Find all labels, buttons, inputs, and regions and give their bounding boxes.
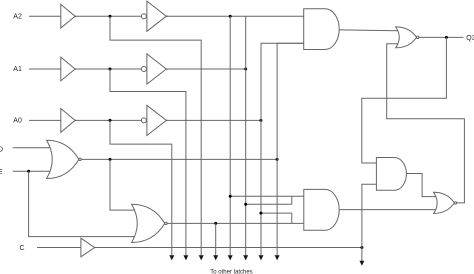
wire C up to AND U12 bottom input and down to arrow	[362, 184, 377, 261]
arrow A0 bus	[169, 255, 174, 260]
buffer U3 (A1)	[61, 57, 75, 81]
wire A1n from inverter U4 to bus	[166, 68, 245, 70]
wire OR U8 bus down	[215, 223, 217, 255]
wire AND U11 output to OR U14 bottom input	[339, 209, 436, 211]
junction Q3	[445, 36, 448, 39]
svg-text:A2: A2	[13, 13, 22, 20]
svg-text:E: E	[0, 169, 3, 176]
wire OR U7 output across buses	[81, 158, 277, 160]
wire OR U13 output to Q3	[419, 36, 464, 38]
wire C input to buffer	[37, 247, 81, 249]
wire A0n tap to jog	[261, 212, 292, 214]
junction A2n tap	[229, 195, 232, 198]
wire A0n bus with AND U10 bottom input	[261, 43, 304, 255]
junction OR U8 output to bus	[214, 222, 217, 225]
inverter U2 (A2 with input bubble)	[141, 1, 167, 31]
inverter U4 (A1 with input bubble)	[141, 54, 167, 84]
wire A2n tap to AND U11	[230, 195, 304, 197]
and-gate U10 (address decode top)	[304, 9, 340, 50]
arrow OR U8 bus	[213, 255, 218, 260]
wire AND U12 output to OR U14 top input	[406, 174, 436, 197]
buffer U1 (A2)	[61, 4, 75, 28]
svg-text:A1: A1	[13, 66, 22, 73]
junction E	[27, 170, 30, 173]
wire C buffer output across buses	[95, 247, 362, 249]
svg-text:C: C	[20, 245, 25, 252]
wire A1 input to buffer	[29, 68, 61, 70]
wire buffer U5 output to inverter U6	[75, 119, 141, 121]
svg-text:A0: A0	[13, 118, 22, 125]
junction A0n tap	[259, 212, 262, 215]
junction A0	[109, 119, 112, 122]
wire OR U7 output down to OR U8 top input	[110, 159, 135, 210]
wire OR U7 bus with AND U10 input	[277, 43, 304, 255]
wire A2n from inverter U2 to AND U10 top input	[166, 15, 303, 17]
wire A2n bus down	[229, 16, 231, 255]
junction A2	[109, 15, 112, 18]
and-gate U12 (feedback AND)	[376, 158, 406, 191]
arrow OR U7 bus	[275, 255, 280, 260]
arrow A1n bus	[243, 255, 248, 260]
wire OR U14 output feedback to OR U13 bottom input	[387, 44, 465, 203]
wire E branch down to OR U8 bottom input	[29, 171, 135, 236]
wire A2 input to buffer	[29, 15, 61, 17]
wire E input to OR U7	[13, 170, 51, 172]
wire A0 input to buffer	[29, 119, 61, 121]
wire OR U8 output to AND U11 bottom input	[167, 222, 304, 224]
wire buffer U3 output to inverter U4	[75, 68, 141, 70]
or-gate U8	[132, 204, 167, 242]
svg-text:Q3: Q3	[466, 35, 474, 42]
wire A1 loop down to bus	[110, 69, 186, 256]
junction A2n bus	[229, 15, 232, 18]
or-gate U14 (feedback OR)	[434, 192, 457, 213]
wire D input to OR U7	[13, 147, 51, 149]
arrow A2 bus	[199, 255, 204, 260]
junction OR U7 output to bus	[276, 158, 279, 161]
arrow A1 bus	[183, 255, 188, 260]
or-gate U13 (output OR)	[396, 27, 419, 48]
wire AND U10 output to OR U13	[339, 29, 398, 32]
wire buffer U1 output to inverter U2	[75, 15, 141, 17]
arrow A2n bus	[228, 255, 233, 260]
wire A1n bus vertical	[245, 16, 247, 255]
buffer U9 (C)	[81, 238, 95, 257]
wire A1n tap to jog	[246, 203, 292, 205]
arrow A0n bus	[259, 255, 264, 260]
wire A2 loop down to bus	[110, 16, 201, 255]
wire A0n from inverter U6 to bus	[166, 119, 261, 121]
buffer U5 (A0)	[61, 109, 75, 133]
junction A0n bus	[259, 119, 262, 122]
and-gate U11 (address decode bottom)	[304, 189, 339, 230]
wire A0 loop down to bus	[110, 120, 172, 255]
junction A1n tap	[244, 203, 247, 206]
svg-text:D: D	[0, 146, 3, 153]
or-gate U7 (D,E)	[47, 140, 82, 178]
wire jog A1n to A2n tap	[291, 196, 293, 204]
junction C	[360, 246, 363, 249]
junction A1n bus	[244, 68, 247, 71]
junction A1	[109, 68, 112, 71]
wire jog A0n tap to OR U8 line	[291, 213, 293, 223]
junction OR U7 output	[109, 158, 112, 161]
arrow C bus	[359, 261, 364, 266]
wire Q3 feedback to AND U12 top input	[362, 37, 447, 163]
inverter U6 (A0 with input bubble)	[141, 105, 167, 135]
svg-text:To other latches: To other latches	[210, 270, 252, 274]
